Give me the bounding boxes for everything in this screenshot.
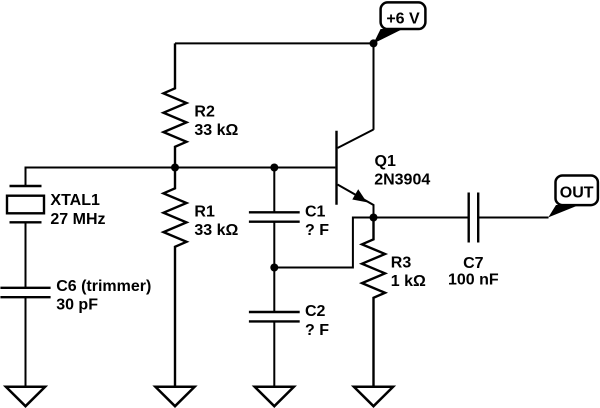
node dot: +6V supply node — [370, 39, 378, 47]
wire: C6 bottom to ground — [25, 297, 27, 387]
wire: +6V top rail from R2 top to collector column — [175, 42, 374, 44]
resistor R1 — [164, 168, 187, 387]
wire: C7 right plate to OUT flag — [478, 217, 548, 219]
ground (below C2) — [255, 387, 294, 406]
svg-text:C7: C7 — [463, 255, 484, 272]
wire: C2 bottom to ground — [273, 321, 275, 386]
wire: C2 top lead — [273, 268, 275, 313]
capacitor C6 (trimmer) — [0, 288, 50, 297]
node dot: C1 junction on main bus — [270, 164, 278, 172]
net flag OUT — [548, 176, 598, 218]
wire: emitter node to C7 left plate — [374, 217, 469, 219]
crystal XTAL1 — [7, 168, 44, 223]
svg-text:? F: ? F — [305, 322, 329, 339]
svg-text:33 kΩ: 33 kΩ — [194, 122, 238, 139]
node dot: C1/C2 junction — [270, 264, 278, 272]
svg-text:Q1: Q1 — [375, 153, 396, 170]
capacitor C1 — [249, 168, 300, 222]
svg-text:C1: C1 — [305, 204, 326, 221]
resistor R3 — [362, 218, 385, 387]
wire: main bus at y=167.5 from XTAL corner to Q1 base — [25, 167, 336, 169]
transistor Q1 (NPN 2N3904) — [337, 130, 374, 218]
net flag +6 V — [374, 2, 426, 43]
node dot: R1/R2 junction on main bus — [171, 164, 179, 172]
svg-text:R1: R1 — [194, 204, 215, 221]
svg-text:R3: R3 — [391, 255, 412, 272]
svg-text:XTAL1: XTAL1 — [50, 192, 100, 209]
wire: collector lead from +6V node down to Q1 collector — [373, 43, 375, 129]
wire: XTAL bottom to C6 top — [25, 222, 27, 287]
svg-text:C2: C2 — [305, 303, 326, 320]
capacitor C7 — [469, 193, 479, 243]
ground (below R3) — [354, 387, 393, 406]
wire: emitter node to C1/C2 junction (L-shape) — [274, 218, 373, 268]
svg-text:C6 (trimmer): C6 (trimmer) — [56, 278, 151, 295]
wire: C1 bottom lead to node below — [273, 222, 275, 268]
svg-text:2N3904: 2N3904 — [374, 172, 430, 189]
svg-text:100 nF: 100 nF — [448, 272, 499, 289]
svg-text:OUT: OUT — [560, 185, 594, 202]
ground (below C6) — [6, 387, 45, 406]
svg-text:+6 V: +6 V — [386, 11, 420, 28]
svg-text:27 MHz: 27 MHz — [50, 211, 105, 228]
svg-text:1 kΩ: 1 kΩ — [391, 273, 426, 290]
svg-text:30 pF: 30 pF — [56, 296, 98, 313]
ground (below R1) — [155, 387, 194, 406]
resistor R2 — [164, 43, 187, 167]
capacitor C2 — [249, 312, 300, 321]
svg-text:? F: ? F — [305, 222, 329, 239]
svg-text:R2: R2 — [194, 104, 215, 121]
svg-text:33 kΩ: 33 kΩ — [194, 222, 238, 239]
node dot: emitter output node — [370, 214, 378, 222]
